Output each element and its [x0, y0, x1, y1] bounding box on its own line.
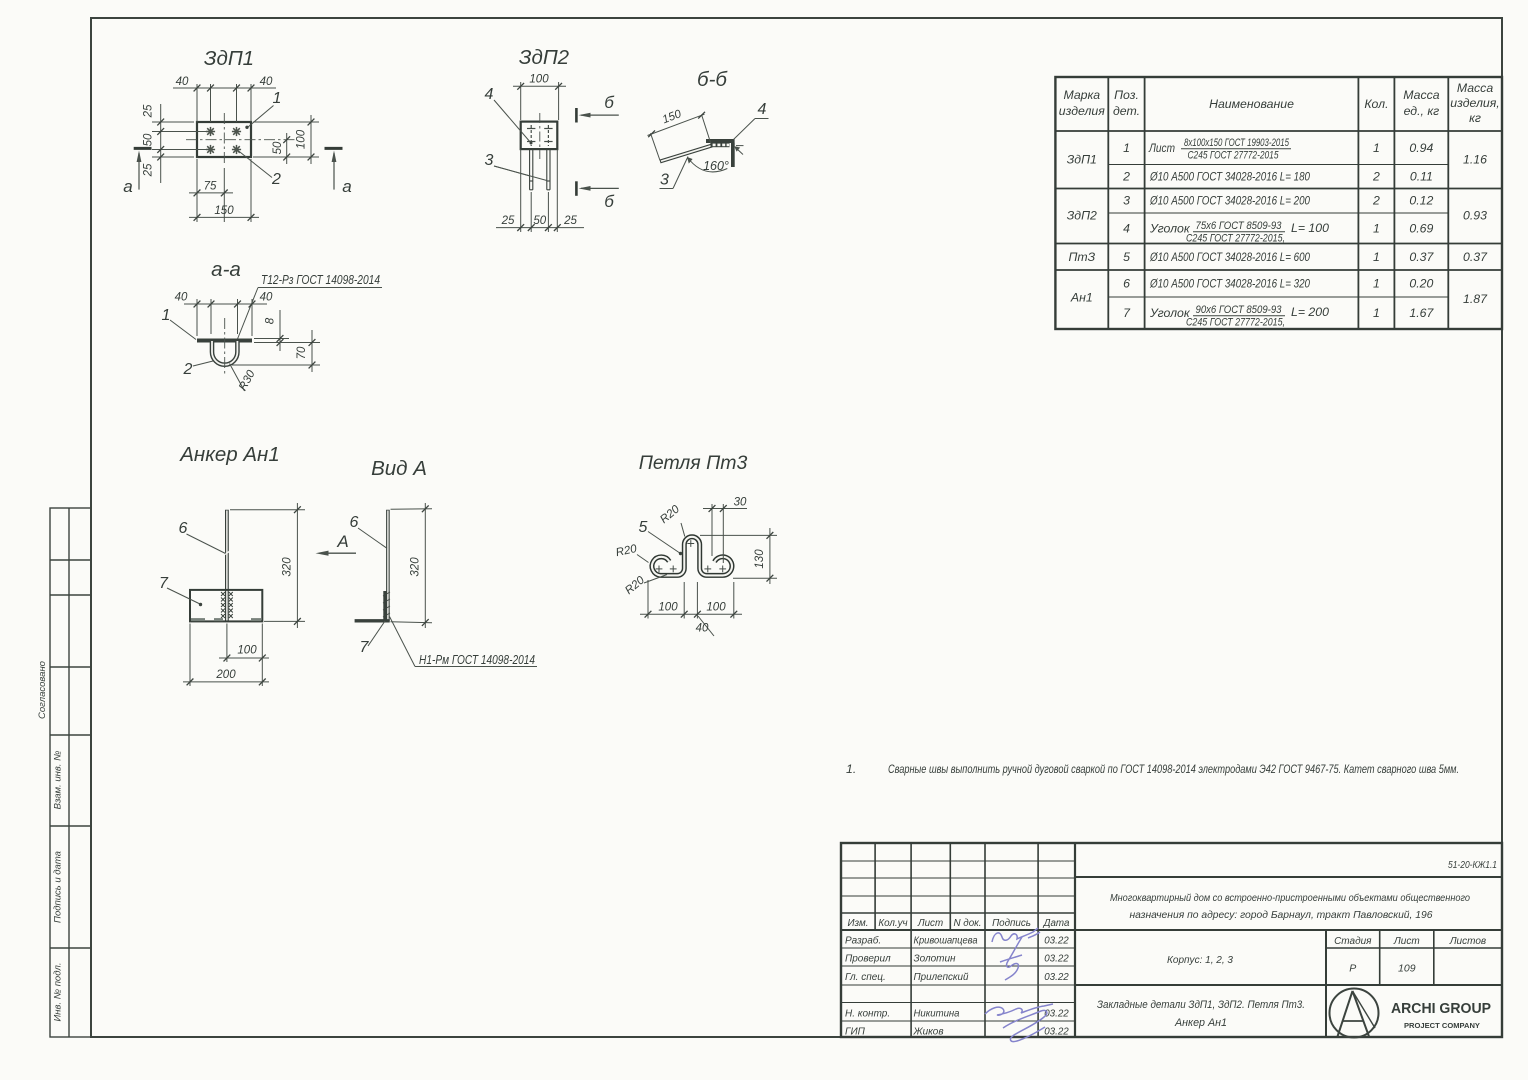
svg-text:03.22: 03.22	[1044, 972, 1069, 983]
svg-text:ГИП: ГИП	[845, 1027, 866, 1038]
left margin rotated labels	[37, 661, 64, 1021]
leader poz.2 section	[183, 361, 213, 378]
centerline horizontal	[186, 139, 296, 141]
massa izdeliya values	[1463, 153, 1488, 307]
svg-text:ЗдП2: ЗдП2	[1067, 209, 1097, 223]
svg-text:50: 50	[533, 215, 546, 227]
svg-text:1.87: 1.87	[1463, 292, 1488, 306]
svg-text:8: 8	[265, 317, 277, 324]
title Anker An1	[178, 443, 280, 466]
svg-text:ПтЗ: ПтЗ	[1068, 250, 1095, 264]
svg-text:1: 1	[1123, 141, 1130, 155]
title block role rows	[845, 935, 978, 1038]
svg-text:160°: 160°	[703, 159, 729, 173]
title block grid	[841, 843, 1502, 1037]
svg-text:Вид А: Вид А	[371, 457, 427, 480]
svg-text:ARCHI GROUP: ARCHI GROUP	[1391, 1001, 1491, 1017]
weld label T12	[238, 273, 383, 339]
svg-text:1.16: 1.16	[1463, 153, 1487, 167]
svg-text:С245 ГОСТ 27772-2015: С245 ГОСТ 27772-2015	[1188, 150, 1280, 162]
svg-text:Кол.уч: Кол.уч	[878, 918, 907, 929]
svg-text:1: 1	[1373, 306, 1380, 320]
svg-text:Ø10 А500 ГОСТ 34028-2016 L= 18: Ø10 А500 ГОСТ 34028-2016 L= 180	[1149, 170, 1310, 184]
svg-text:б: б	[604, 93, 615, 112]
svg-text:Уголок: Уголок	[1149, 306, 1191, 320]
svg-text:изделия,: изделия,	[1450, 96, 1499, 110]
left dimension 25/50/25	[152, 104, 206, 183]
svg-text:Лист: Лист	[1148, 141, 1175, 155]
svg-text:1: 1	[1373, 222, 1380, 236]
svg-text:2: 2	[1122, 170, 1130, 184]
svg-text:0.20: 0.20	[1409, 277, 1433, 291]
leader poz.6 An1	[179, 520, 226, 554]
svg-text:А: А	[336, 532, 348, 551]
svg-text:1: 1	[1373, 277, 1380, 291]
centerline vertical	[223, 113, 225, 166]
svg-text:03.22: 03.22	[1044, 936, 1069, 947]
svg-text:N док.: N док.	[953, 918, 981, 929]
svg-text:25: 25	[501, 215, 515, 227]
object description	[1110, 892, 1470, 921]
svg-text:ЗдП1: ЗдП1	[1067, 153, 1097, 167]
naimenovanie rows	[1148, 137, 1329, 329]
svg-text:Масса: Масса	[1457, 81, 1494, 95]
svg-text:7: 7	[360, 639, 370, 656]
svg-text:б-б: б-б	[697, 68, 728, 91]
svg-text:6: 6	[179, 520, 188, 537]
svg-text:200: 200	[215, 669, 236, 681]
svg-text:0.37: 0.37	[1409, 250, 1434, 264]
rebar leg left poz.3	[530, 149, 533, 190]
dimension 40/40 section	[184, 299, 267, 336]
svg-text:0.12: 0.12	[1409, 194, 1433, 208]
svg-text:40: 40	[176, 76, 189, 88]
svg-text:Сварные швы выполнить ручной д: Сварные швы выполнить ручной дуговой сва…	[888, 762, 1459, 776]
svg-text:50: 50	[143, 133, 155, 146]
table header	[1059, 81, 1500, 125]
svg-text:Инв. № подл.: Инв. № подл.	[53, 963, 64, 1022]
angle poz.7 front	[190, 590, 262, 622]
column marka values	[1067, 153, 1097, 305]
svg-text:ЗдП2: ЗдП2	[519, 46, 570, 69]
leader poz.4 b-b	[734, 101, 769, 140]
loop poz.2 section	[212, 341, 237, 365]
dimension 100 top	[513, 82, 566, 120]
svg-text:100: 100	[529, 74, 549, 86]
loop poz.5 bent bar	[652, 537, 732, 576]
svg-text:40: 40	[260, 76, 273, 88]
svg-text:2: 2	[183, 361, 193, 378]
svg-text:Закладные детали ЗдП1, ЗдП2. П: Закладные детали ЗдП1, ЗдП2. Петля Пт3.	[1097, 999, 1305, 1011]
svg-text:03.22: 03.22	[1044, 1027, 1069, 1038]
dimension 30	[703, 504, 747, 563]
svg-text:150: 150	[214, 205, 234, 217]
svg-text:R20: R20	[623, 574, 647, 597]
section mark b upper	[576, 93, 618, 123]
svg-text:Ан1: Ан1	[1070, 291, 1093, 305]
title a-a	[211, 258, 241, 281]
svg-text:51-20-КЖ1.1: 51-20-КЖ1.1	[1448, 859, 1497, 871]
bottom dimension 150	[189, 159, 259, 222]
svg-text:Н. контр.: Н. контр.	[845, 1009, 890, 1020]
svg-text:70: 70	[296, 346, 308, 359]
svg-text:40: 40	[260, 292, 273, 304]
svg-text:1: 1	[1373, 141, 1380, 155]
svg-text:Петля Пт3: Петля Пт3	[639, 452, 748, 474]
svg-text:Уголок: Уголок	[1149, 222, 1191, 236]
leader poz.7 An1	[159, 575, 202, 606]
rebar poz.6 side	[386, 510, 390, 622]
signature proveril	[1000, 937, 1022, 980]
dimension 150 inclined	[648, 114, 712, 160]
svg-text:0.11: 0.11	[1410, 170, 1433, 184]
radius R20 lower-left	[623, 574, 667, 597]
svg-text:03.22: 03.22	[1044, 1009, 1069, 1020]
rebar mark right inside plate	[544, 125, 552, 146]
plate poz.1 section	[197, 339, 252, 343]
leader poz.7 view A	[360, 621, 385, 656]
svg-text:Изм.: Изм.	[848, 918, 869, 929]
svg-text:Проверил: Проверил	[845, 954, 891, 965]
svg-text:3: 3	[1123, 194, 1130, 208]
radius label R30	[230, 364, 258, 393]
centerline ZdP2	[539, 113, 541, 159]
sheet title	[1097, 999, 1305, 1029]
svg-text:30: 30	[734, 497, 747, 509]
leader poz.3 b-b	[660, 157, 689, 189]
svg-text:Гл. спец.: Гл. спец.	[845, 972, 886, 983]
svg-text:100: 100	[237, 645, 257, 657]
logo archi group	[1330, 989, 1379, 1038]
leader poz.1	[248, 90, 281, 127]
title block header row	[848, 918, 1070, 929]
signature razrab	[992, 928, 1040, 942]
svg-text:1.67: 1.67	[1409, 306, 1434, 320]
svg-text:Согласовано: Согласовано	[37, 661, 48, 719]
weld arrow b-b	[734, 146, 743, 155]
svg-text:2: 2	[1372, 170, 1380, 184]
svg-text:8х100х150 ГОСТ 19903-2015: 8х100х150 ГОСТ 19903-2015	[1184, 137, 1290, 149]
title ZdP1	[204, 47, 254, 70]
svg-text:0.37: 0.37	[1463, 250, 1488, 264]
svg-text:ЗдП1: ЗдП1	[204, 47, 254, 70]
rebar anchors poz.2 (stars)	[206, 127, 241, 154]
svg-text:С245 ГОСТ 27772-2015,: С245 ГОСТ 27772-2015,	[1186, 317, 1285, 329]
leader poz.2	[238, 151, 281, 189]
svg-text:Наименование: Наименование	[1209, 97, 1294, 111]
svg-text:Поз.: Поз.	[1114, 88, 1139, 102]
svg-text:R20: R20	[615, 543, 639, 559]
svg-text:7: 7	[1123, 306, 1131, 320]
leader poz.6 view A	[350, 514, 387, 548]
svg-text:40: 40	[696, 623, 709, 635]
dimension 200 An1	[183, 624, 269, 687]
title b-b	[697, 68, 728, 91]
svg-text:Масса: Масса	[1403, 88, 1440, 102]
top dimension 40/40	[173, 84, 276, 122]
radius R20 top	[658, 503, 685, 537]
svg-text:0.93: 0.93	[1463, 209, 1487, 223]
svg-text:Анкер Ан1: Анкер Ан1	[178, 443, 280, 466]
svg-text:ед., кг: ед., кг	[1404, 104, 1440, 118]
svg-text:25: 25	[143, 104, 155, 118]
svg-text:5: 5	[1123, 250, 1130, 264]
dimension 8	[254, 310, 289, 351]
svg-text:Марка: Марка	[1063, 88, 1100, 102]
svg-text:50: 50	[272, 141, 284, 154]
angle plate poz.4 front	[521, 122, 558, 150]
svg-text:а: а	[123, 177, 132, 196]
svg-text:Подпись: Подпись	[992, 918, 1031, 929]
svg-text:а: а	[342, 177, 351, 196]
svg-text:кг: кг	[1469, 111, 1481, 125]
rebar poz.6 front	[225, 510, 230, 622]
svg-text:Р: Р	[1349, 963, 1356, 975]
svg-text:Жиков: Жиков	[913, 1027, 944, 1038]
dimension 100 An1	[219, 624, 269, 687]
inclined rebar poz.3	[660, 146, 712, 162]
svg-text:R30: R30	[237, 368, 258, 393]
svg-text:5: 5	[639, 519, 648, 536]
svg-text:Корпус: 1, 2, 3: Корпус: 1, 2, 3	[1167, 955, 1233, 966]
svg-text:Многоквартирный дом со встроен: Многоквартирный дом со встроенно-пристро…	[1110, 892, 1470, 904]
angle poz.4 section with weld	[706, 139, 735, 167]
svg-text:1: 1	[1373, 250, 1380, 264]
svg-text:4: 4	[758, 101, 767, 118]
svg-text:L= 100: L= 100	[1291, 221, 1329, 235]
weld segments bottom edge	[191, 618, 261, 621]
title ZdP2	[519, 46, 570, 69]
view arrow A	[316, 532, 357, 556]
svg-text:2: 2	[1372, 194, 1380, 208]
angle 160 deg	[687, 157, 729, 173]
loop axis centerline	[224, 318, 226, 376]
right dimension 50	[253, 133, 296, 164]
left margin column boxes	[50, 508, 91, 1037]
svg-text:320: 320	[282, 557, 294, 577]
svg-text:Ø10 А500 ГОСТ 34028-2016 L= 60: Ø10 А500 ГОСТ 34028-2016 L= 600	[1149, 250, 1310, 264]
section mark b lower	[576, 181, 618, 211]
svg-text:6: 6	[350, 514, 359, 531]
leader poz.4 ZdP2	[485, 86, 533, 145]
dimensions 100/100/40 bottom	[640, 580, 742, 636]
svg-text:изделия: изделия	[1059, 104, 1105, 118]
svg-text:3: 3	[660, 172, 669, 189]
leader poz.5	[639, 519, 683, 555]
title Petlya Pt3	[639, 452, 748, 474]
title Vid A	[371, 457, 427, 480]
stadiya list values	[1349, 963, 1415, 975]
svg-text:0.69: 0.69	[1409, 222, 1433, 236]
svg-text:100: 100	[706, 602, 726, 614]
svg-text:Лист: Лист	[917, 918, 943, 929]
svg-text:2: 2	[271, 171, 281, 188]
bottom dimension 25/50/25 ZdP2	[496, 149, 584, 232]
section mark a left	[123, 148, 151, 196]
svg-text:75: 75	[204, 181, 217, 193]
svg-text:Ø10 А500 ГОСТ 34028-2016 L= 20: Ø10 А500 ГОСТ 34028-2016 L= 200	[1149, 194, 1310, 208]
svg-text:Подпись и дата: Подпись и дата	[53, 851, 64, 923]
svg-text:25: 25	[143, 163, 155, 177]
plate poz.1 plan	[197, 122, 251, 157]
svg-text:1: 1	[273, 90, 282, 107]
svg-text:100: 100	[296, 129, 308, 149]
table grid	[1055, 77, 1502, 329]
signature n.kontr	[985, 1004, 1053, 1042]
massa ed values	[1409, 141, 1434, 320]
svg-text:L= 200: L= 200	[1291, 305, 1329, 319]
kol values	[1372, 141, 1380, 320]
svg-text:25: 25	[563, 215, 577, 227]
svg-text:Н1-Рм ГОСТ 14098-2014: Н1-Рм ГОСТ 14098-2014	[419, 653, 535, 667]
svg-text:С245 ГОСТ 27772-2015,: С245 ГОСТ 27772-2015,	[1186, 233, 1285, 245]
column poz values	[1122, 141, 1131, 320]
svg-text:6: 6	[1123, 277, 1130, 291]
svg-text:320: 320	[410, 557, 422, 577]
svg-text:Никитина: Никитина	[914, 1009, 960, 1020]
svg-text:100: 100	[658, 602, 678, 614]
svg-text:Листов: Листов	[1449, 936, 1486, 947]
angle poz.7 side	[355, 591, 390, 621]
note 1 welding	[846, 762, 1459, 776]
leader dot for poz.1	[245, 126, 248, 129]
svg-text:Кривошапцева: Кривошапцева	[914, 936, 978, 947]
bottom dimension 75	[189, 159, 233, 222]
document number	[1448, 859, 1497, 871]
svg-text:109: 109	[1398, 963, 1416, 975]
svg-text:Дата: Дата	[1043, 918, 1070, 929]
rebar mark left inside plate	[527, 125, 535, 146]
leader poz.1 section	[162, 307, 196, 340]
svg-text:Анкер Ан1: Анкер Ан1	[1174, 1017, 1227, 1029]
svg-text:а-а: а-а	[211, 258, 241, 281]
svg-text:Стадия: Стадия	[1334, 936, 1372, 947]
section mark a right	[325, 148, 352, 196]
svg-text:1: 1	[162, 307, 171, 324]
weld hatch view A	[383, 592, 390, 617]
svg-text:Золотин: Золотин	[914, 954, 956, 965]
svg-text:б: б	[604, 192, 615, 211]
svg-text:Т12-Рз ГОСТ 14098-2014: Т12-Рз ГОСТ 14098-2014	[261, 273, 380, 287]
bend center marks	[656, 540, 727, 572]
rebar leg right poz.3	[547, 149, 550, 190]
weld hatch on rebar in angle	[221, 592, 233, 618]
dimension 320 An1	[230, 503, 305, 628]
svg-text:назначения по адресу: город Ба: назначения по адресу: город Барнаул, тра…	[1130, 910, 1433, 921]
svg-text:03.22: 03.22	[1044, 954, 1069, 965]
svg-text:130: 130	[754, 549, 766, 569]
svg-text:90х6 ГОСТ 8509-93: 90х6 ГОСТ 8509-93	[1196, 304, 1283, 316]
title block dates	[1044, 936, 1069, 1038]
svg-text:40: 40	[175, 292, 188, 304]
dimension 130	[700, 528, 777, 584]
radius R20 left	[615, 543, 649, 563]
svg-text:0.94: 0.94	[1409, 141, 1433, 155]
svg-text:4: 4	[1123, 222, 1130, 236]
logo text	[1391, 1001, 1491, 1030]
dimension 70	[232, 330, 320, 372]
svg-text:75х6 ГОСТ 8509-93: 75х6 ГОСТ 8509-93	[1196, 220, 1283, 232]
weld label N1-Rm	[390, 617, 538, 668]
svg-text:3: 3	[485, 152, 494, 169]
svg-text:дет.: дет.	[1113, 104, 1140, 118]
svg-text:R20: R20	[658, 503, 682, 526]
svg-text:PROJECT COMPANY: PROJECT COMPANY	[1404, 1023, 1480, 1030]
dimension 320 view A	[391, 503, 433, 628]
svg-text:Взам. инв. №: Взам. инв. №	[53, 751, 64, 810]
svg-text:Кол.: Кол.	[1364, 97, 1388, 111]
svg-text:4: 4	[485, 86, 494, 103]
svg-text:Ø10 А500 ГОСТ 34028-2016 L= 32: Ø10 А500 ГОСТ 34028-2016 L= 320	[1149, 277, 1310, 291]
korpus	[1167, 955, 1233, 966]
stadiya list listov header	[1334, 936, 1486, 947]
leader poz.3 ZdP2	[485, 152, 547, 181]
right dimension 100	[253, 115, 319, 164]
svg-text:Прилепский: Прилепский	[914, 972, 969, 983]
svg-text:Лист: Лист	[1393, 936, 1420, 947]
svg-text:1.: 1.	[846, 762, 856, 776]
svg-text:7: 7	[159, 575, 169, 592]
svg-text:Разраб.: Разраб.	[845, 935, 881, 947]
